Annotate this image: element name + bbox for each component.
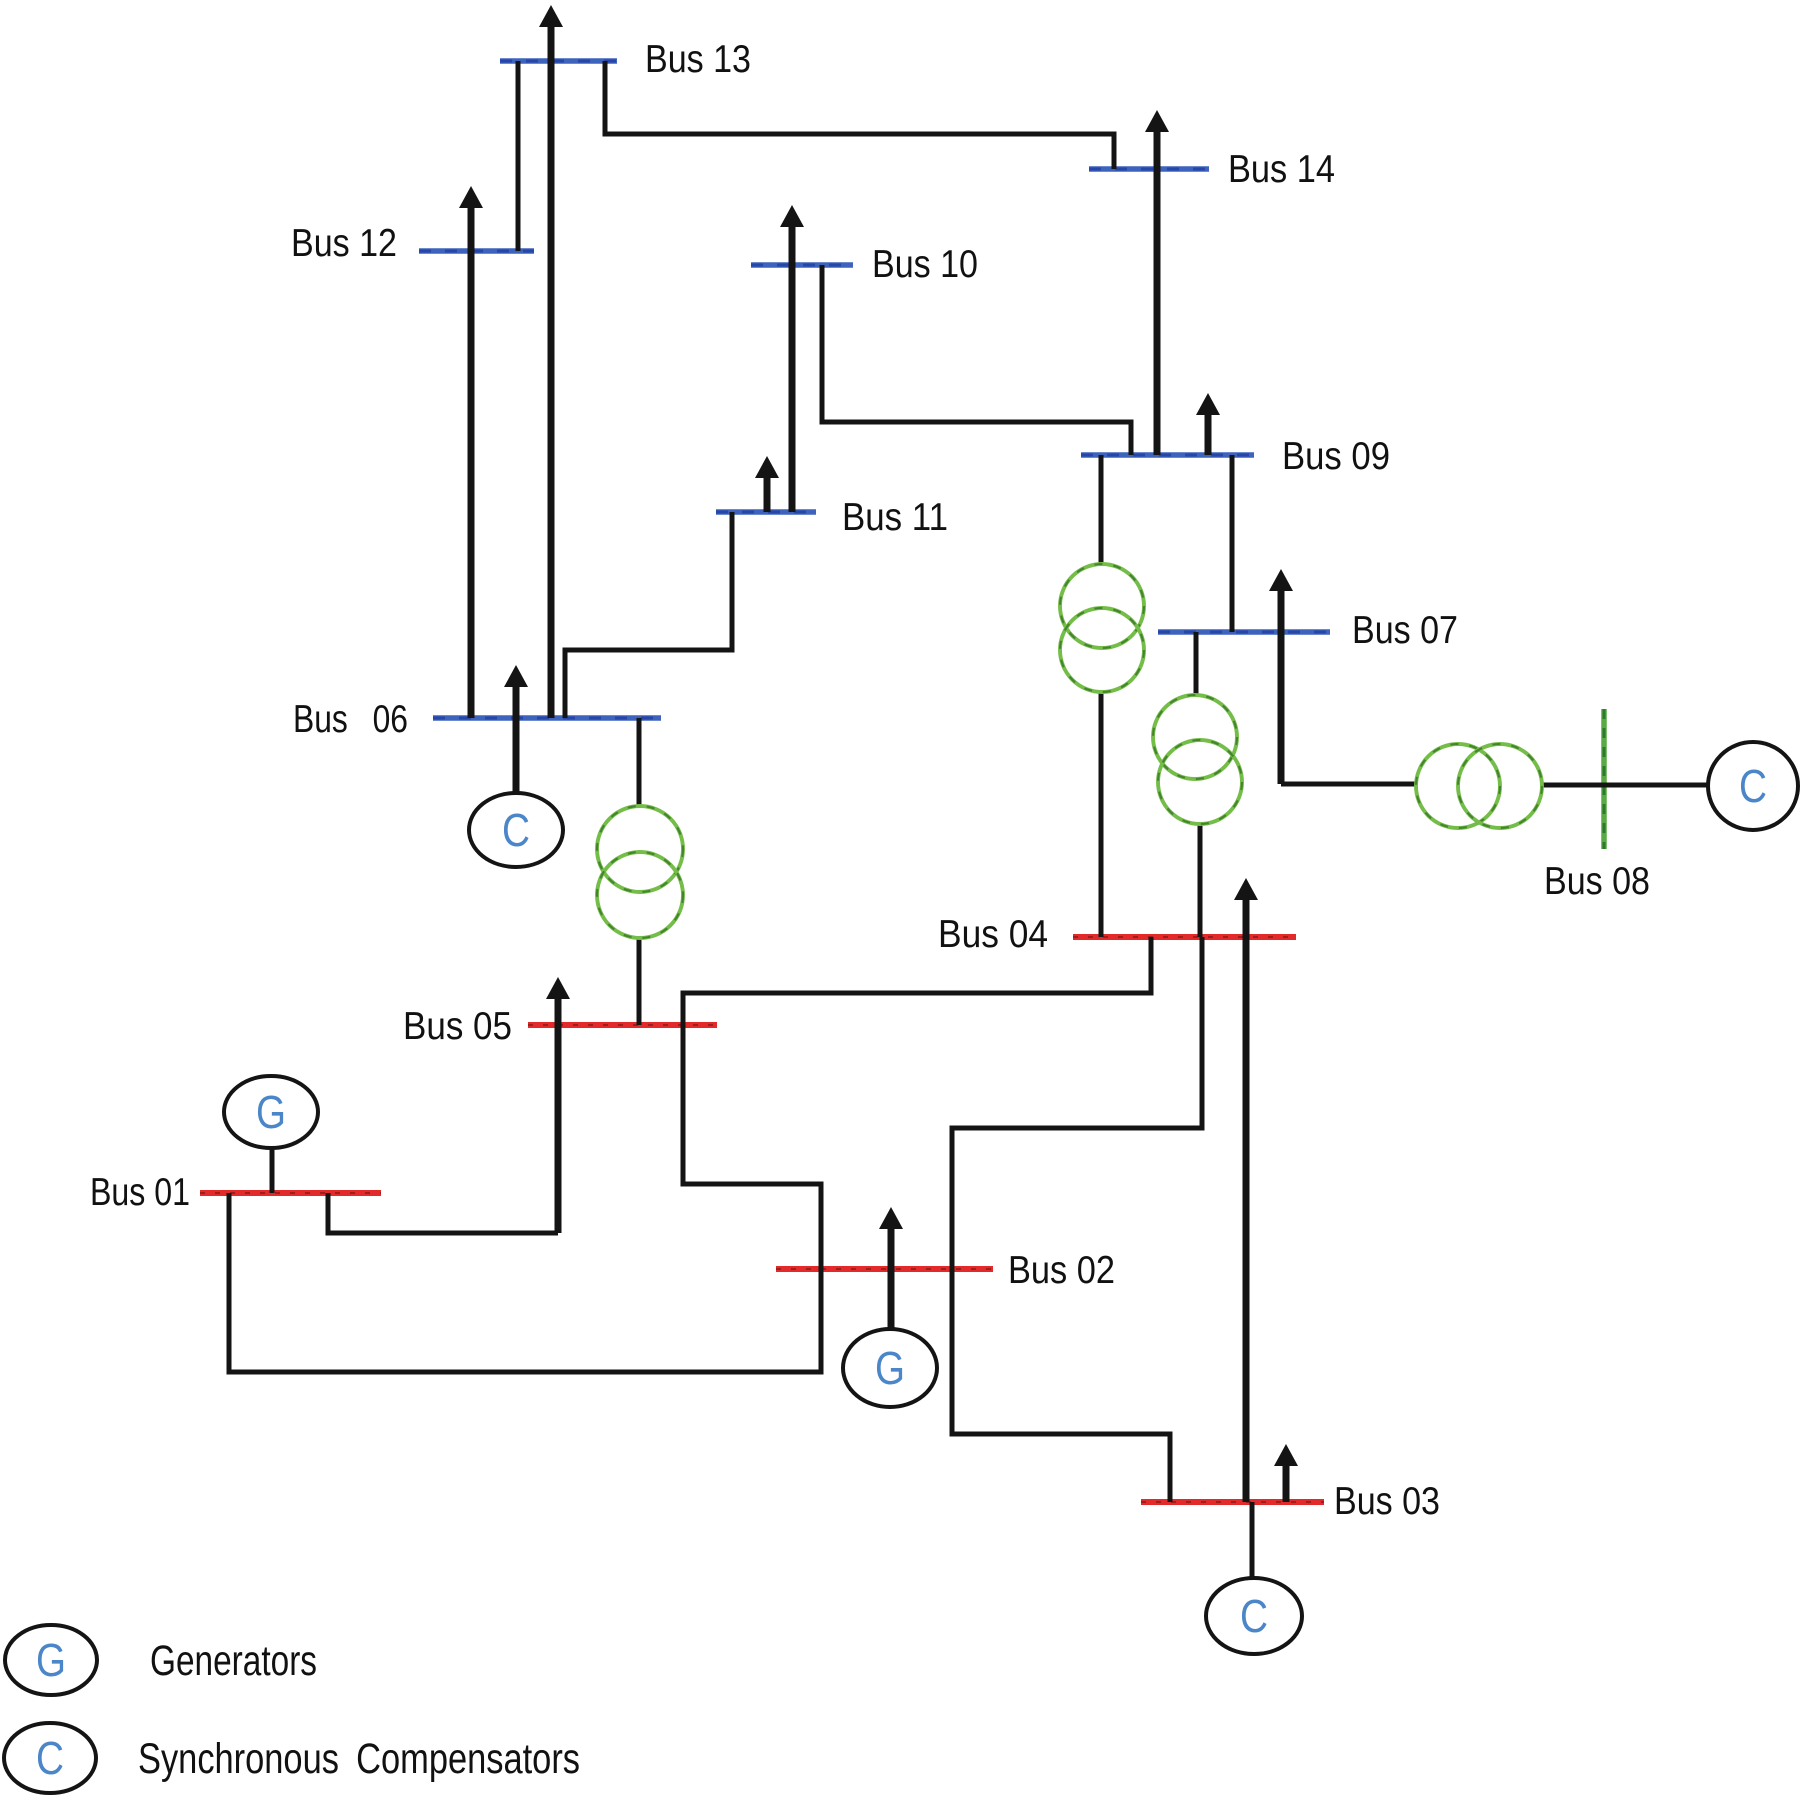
- svg-text:Synchronous Compensators: Synchronous Compensators: [138, 1735, 580, 1783]
- svg-text:Bus 09: Bus 09: [1282, 435, 1390, 478]
- svg-text:Bus 06: Bus 06: [293, 698, 408, 741]
- svg-text:Bus 04: Bus 04: [938, 913, 1048, 956]
- svg-text:Generators: Generators: [150, 1637, 317, 1685]
- svg-text:Bus 01: Bus 01: [90, 1171, 190, 1214]
- svg-text:Bus 13: Bus 13: [645, 38, 751, 81]
- svg-text:C: C: [36, 1732, 64, 1784]
- svg-text:Bus 05: Bus 05: [403, 1005, 512, 1048]
- svg-text:Bus 14: Bus 14: [1228, 148, 1335, 191]
- svg-text:C: C: [502, 804, 530, 856]
- svg-text:Bus 11: Bus 11: [842, 496, 948, 539]
- svg-text:Bus 02: Bus 02: [1008, 1249, 1115, 1292]
- svg-text:G: G: [875, 1342, 905, 1394]
- svg-text:Bus 12: Bus 12: [291, 222, 397, 265]
- svg-text:C: C: [1739, 760, 1767, 812]
- svg-text:Bus 10: Bus 10: [872, 243, 978, 286]
- svg-text:Bus 07: Bus 07: [1352, 609, 1458, 652]
- svg-text:G: G: [256, 1086, 286, 1138]
- svg-text:C: C: [1240, 1590, 1268, 1642]
- svg-text:G: G: [36, 1634, 66, 1686]
- svg-text:Bus 08: Bus 08: [1544, 860, 1650, 903]
- svg-text:Bus 03: Bus 03: [1334, 1480, 1440, 1523]
